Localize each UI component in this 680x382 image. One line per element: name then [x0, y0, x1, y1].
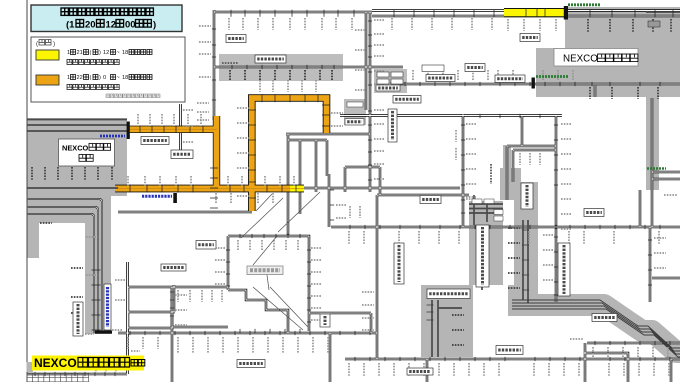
svg-text:NEXCO: NEXCO [563, 54, 598, 65]
svg-text:00: 00 [125, 20, 136, 31]
svg-text:12: 12 [106, 20, 117, 31]
svg-text:1: 1 [67, 75, 70, 81]
svg-text:NEXCO: NEXCO [34, 356, 77, 370]
svg-text:0: 0 [103, 75, 106, 81]
svg-text:12: 12 [103, 50, 109, 56]
svg-text:21: 21 [77, 50, 83, 56]
svg-text:NEXCO: NEXCO [62, 144, 89, 153]
svg-text:(1: (1 [66, 20, 75, 31]
svg-text:(: ( [90, 50, 92, 56]
svg-text:18: 18 [122, 75, 128, 81]
svg-text:18: 18 [122, 50, 128, 56]
svg-text:): ) [99, 50, 101, 56]
svg-text:): ) [53, 41, 55, 48]
svg-text:): ) [153, 20, 156, 31]
svg-text:20: 20 [85, 20, 96, 31]
svg-text:(: ( [90, 75, 92, 81]
svg-text:): ) [99, 75, 101, 81]
svg-text:1: 1 [67, 50, 70, 56]
svg-text:22: 22 [77, 75, 83, 81]
